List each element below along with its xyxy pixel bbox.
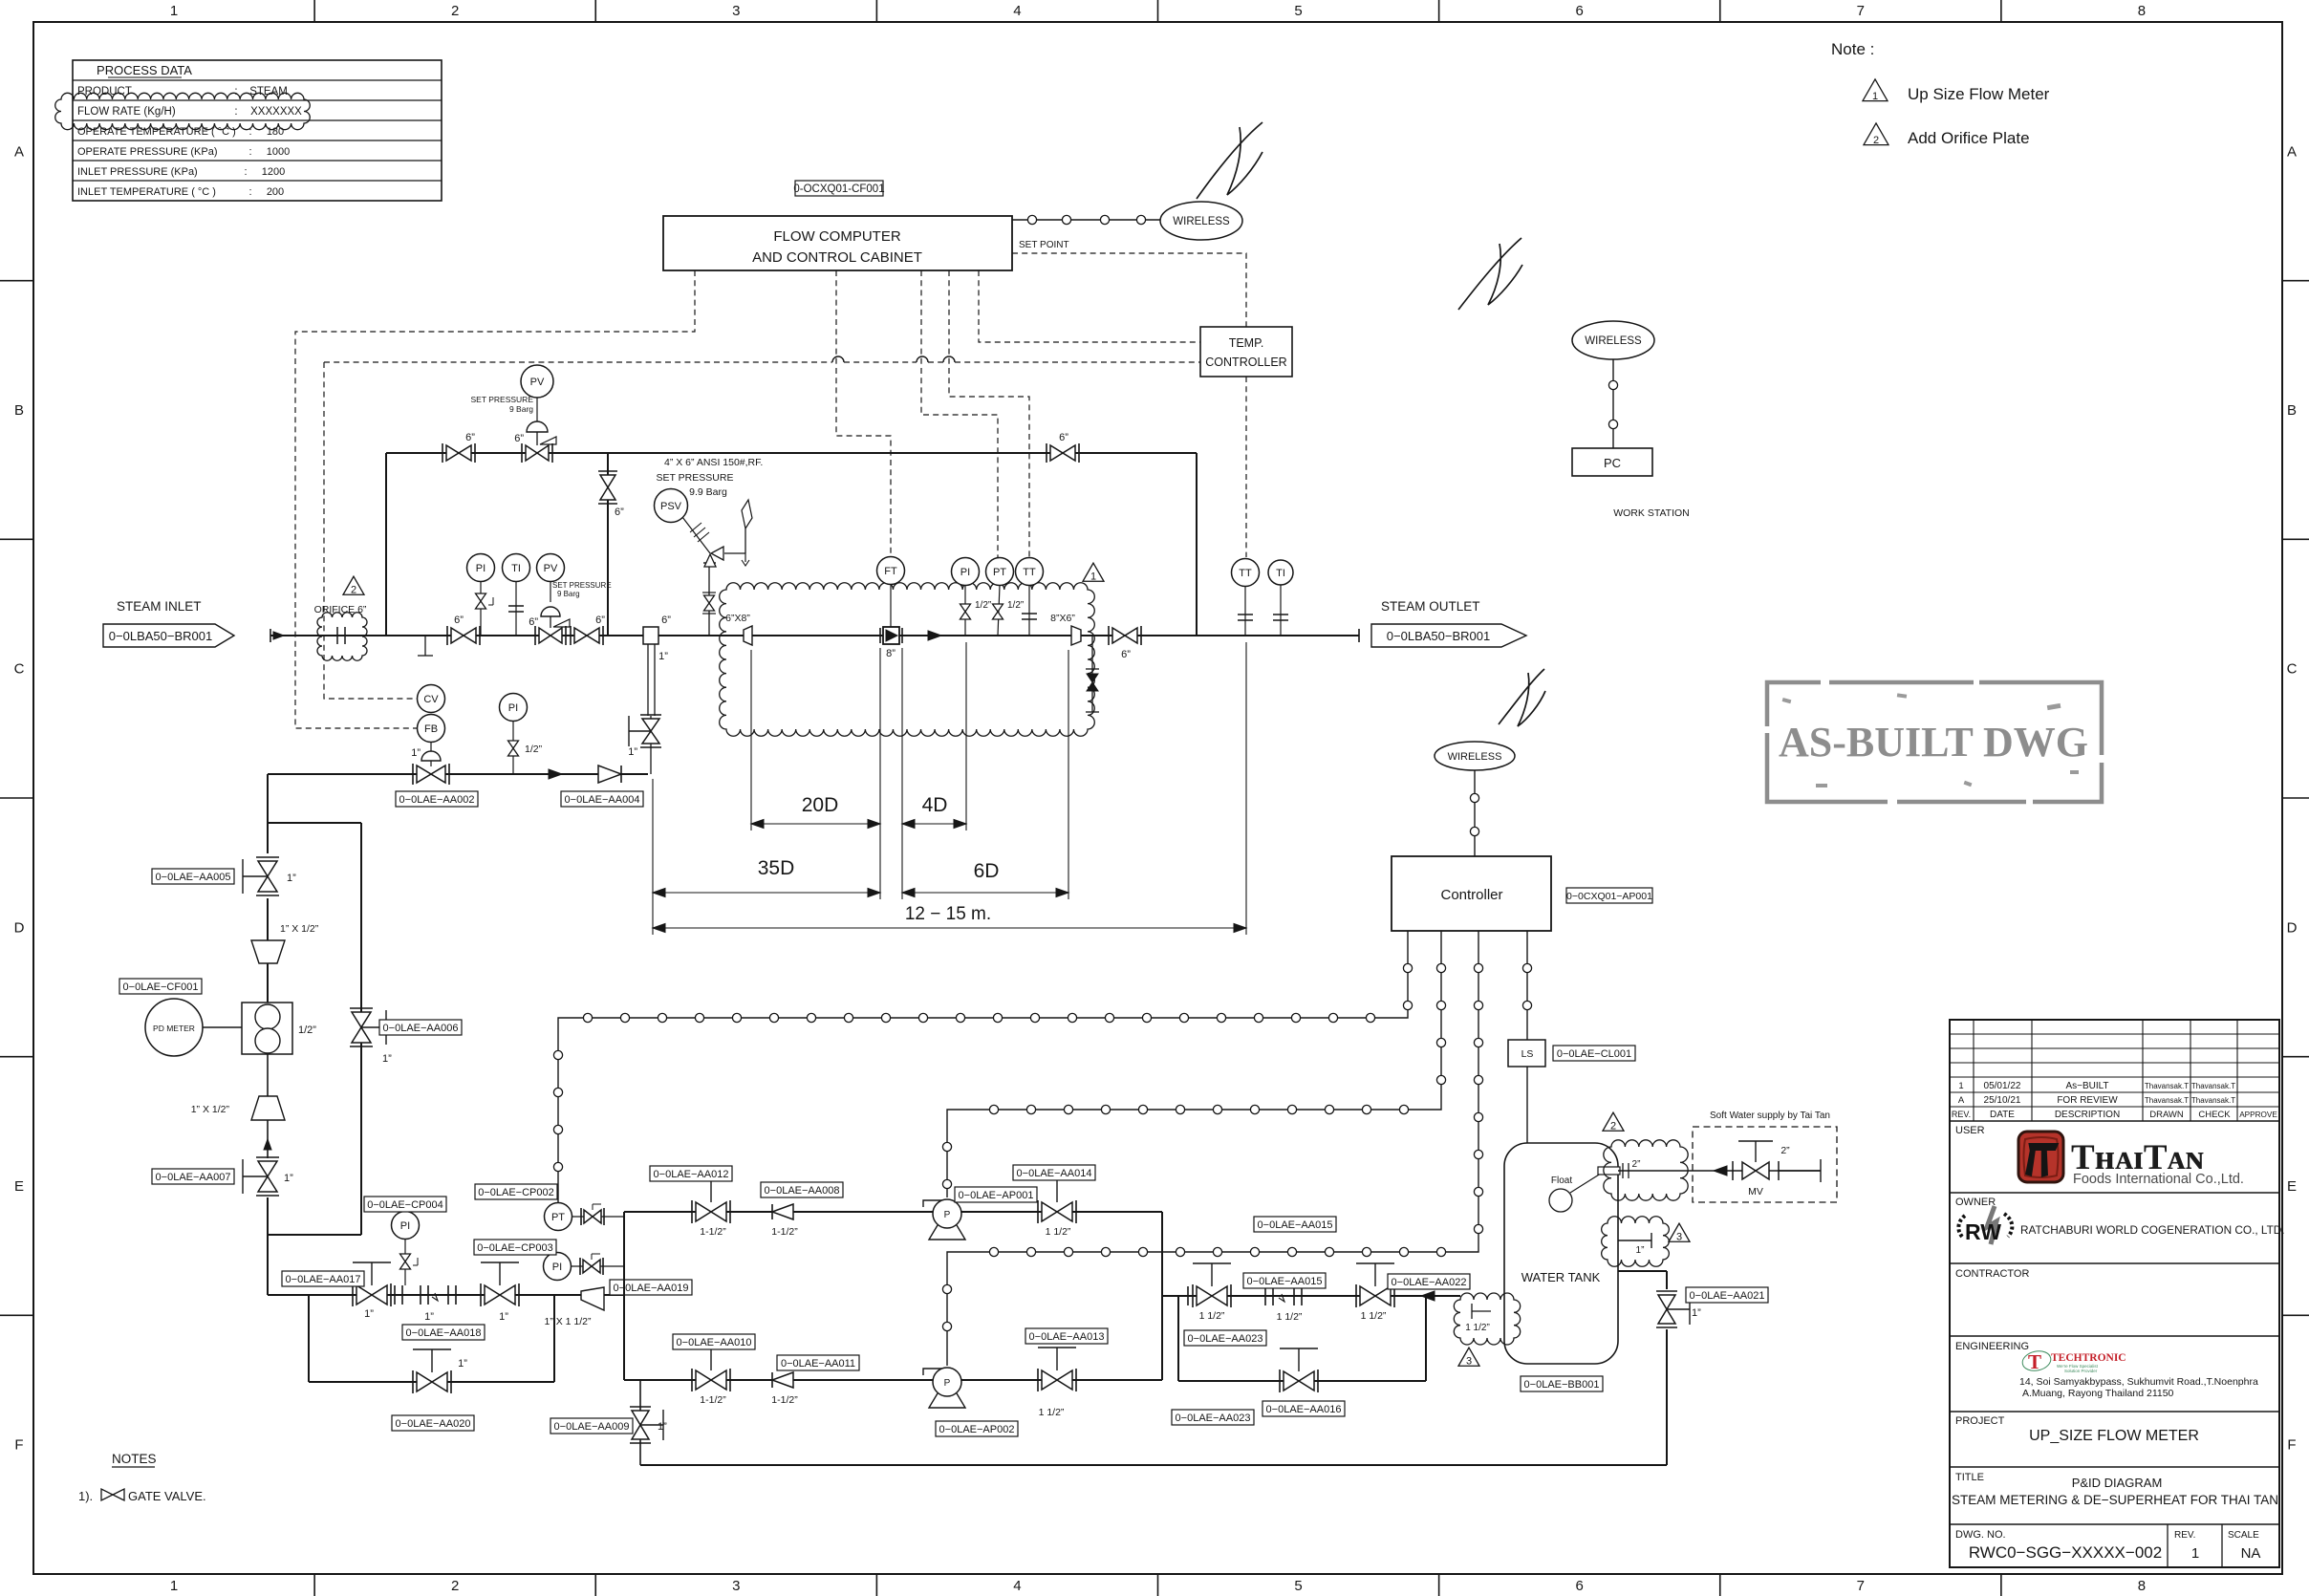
svg-text:A: A [1958,1095,1965,1106]
svg-text:1”: 1” [382,1053,392,1065]
svg-text:SET POINT: SET POINT [1019,240,1069,250]
svg-text:0−0LAE−CP003: 0−0LAE−CP003 [477,1242,553,1254]
svg-text:SET PRESSURE: SET PRESSURE [552,581,612,590]
svg-text:F: F [14,1437,23,1454]
tank outlet to AA021 [1618,1270,1667,1272]
svg-text:0−0LAE−AA008: 0−0LAE−AA008 [765,1185,840,1197]
spool 0-OLAE-AA015 [1264,1286,1266,1305]
svg-text:6”: 6” [514,433,524,444]
svg-text:4: 4 [1013,1578,1021,1594]
svg-text:0−0LAE−BB001: 0−0LAE−BB001 [1524,1379,1600,1391]
note triangle 1 [1863,79,1888,101]
svg-text:2”: 2” [1780,1145,1790,1156]
svg-text:0−0LAE−AA020: 0−0LAE−AA020 [396,1418,471,1430]
svg-text:3: 3 [732,1578,740,1594]
svg-text:PI: PI [508,702,518,714]
svg-text:A: A [14,143,24,160]
svg-text:180: 180 [267,126,284,138]
svg-text:Thavansak.T: Thavansak.T [2191,1096,2235,1105]
svg-text:6”: 6” [529,616,538,628]
svg-text::: : [234,106,237,118]
svg-text:D: D [14,919,25,936]
valve MV [1714,1166,1727,1175]
flow meter 8in [879,628,881,643]
svg-text:FT: FT [884,566,897,577]
wire flow computer to wireless with beads [1012,219,1160,221]
left drop pipe [267,774,269,853]
note triangle 3b [1669,1223,1690,1241]
gate valve 0-OLAE-AA023 [1192,1284,1194,1307]
svg-text:WIRELESS: WIRELESS [1173,216,1230,227]
svg-text:0−0LAE−AA017: 0−0LAE−AA017 [286,1274,361,1285]
controller box [1392,856,1551,931]
svg-text:DWG. NO.: DWG. NO. [1955,1529,2006,1541]
svg-text:PV: PV [530,377,545,388]
svg-text:RW: RW [1965,1219,2001,1244]
svg-text:OPERATE PRESSURE (KPa): OPERATE PRESSURE (KPa) [77,146,218,158]
svg-text:1200: 1200 [262,166,285,178]
gate valve 0-OLAE-AA022 [1355,1284,1357,1307]
svg-text:0−0LAE−AA023: 0−0LAE−AA023 [1176,1413,1251,1424]
svg-text:E: E [2287,1178,2297,1195]
tank inlet cloud [1454,1293,1520,1345]
svg-text:6”: 6” [1121,649,1131,660]
svg-text:8”: 8” [886,648,896,659]
svg-text:1”: 1” [458,1358,467,1370]
line below strainer [267,1054,269,1096]
svg-text:1”: 1” [411,747,421,759]
pc box [1572,448,1652,476]
svg-text:14, Soi Samyakbypass, Sukhu: 14, Soi Samyakbypass, Sukhumvit Road.,T.… [2019,1376,2258,1388]
svg-text:STEAM METERING & DE−SUPERHE: STEAM METERING & DE−SUPERHEAT FOR THAI T… [1952,1493,2278,1507]
svg-text:0−0LAE−AP001: 0−0LAE−AP001 [959,1190,1034,1201]
svg-text:1: 1 [170,3,178,19]
wire AA006 branch joins [268,1234,361,1236]
squiggle mark 2 [1458,238,1522,310]
note triangle 1 on main [1083,563,1104,581]
svg-text:P: P [944,1378,951,1389]
svg-text:WATER TANK: WATER TANK [1521,1270,1601,1284]
svg-text:0−0LAE−AA007: 0−0LAE−AA007 [156,1172,231,1183]
svg-text:DESCRIPTION: DESCRIPTION [2055,1110,2120,1120]
instrument PV on main [537,554,565,582]
svg-text:1: 1 [1090,572,1096,583]
dimension 20D [751,823,880,825]
svg-text:PI: PI [960,567,970,578]
instrument FB [418,715,445,743]
tag 0-OCXQ01-CF001 [793,181,884,196]
svg-text:7: 7 [1857,3,1865,19]
svg-text:WIRELESS: WIRELESS [1585,335,1642,347]
svg-text:1”: 1” [424,1311,434,1323]
gate valve 0-OLAE-AA021 [1656,1290,1677,1292]
svg-text:0−0LAE−AA013: 0−0LAE−AA013 [1029,1331,1105,1343]
svg-text:XXXXXXX: XXXXXXX [250,106,302,118]
svg-text:C: C [14,661,25,678]
svg-text:6: 6 [1576,1578,1584,1594]
svg-text:1 1/2”: 1 1/2” [1046,1226,1071,1238]
svg-text:CONTRACTOR: CONTRACTOR [1955,1268,2029,1280]
svg-text:0−0LAE−CP002: 0−0LAE−CP002 [478,1187,554,1198]
manifold left header [623,1212,625,1380]
contractor section [1950,1335,2279,1337]
svg-text:6”: 6” [615,507,624,518]
gate valve 0-OLAE-AA006 [350,1007,373,1009]
dashed wire flow computer to PT [921,270,998,557]
svg-text:0-OCXQ01-CF001: 0-OCXQ01-CF001 [793,183,884,195]
reducer 8x6 on main [1071,626,1081,645]
svg-text:0−0LAE−AA014: 0−0LAE−AA014 [1017,1168,1092,1179]
svg-text:FOR REVIEW: FOR REVIEW [2057,1095,2118,1106]
svg-text:SET PRESSURE: SET PRESSURE [470,395,533,404]
svg-text:0−0LAE−AA005: 0−0LAE−AA005 [156,872,231,883]
gate valve 0-OLAE-AA017 [352,1283,354,1306]
svg-text:1).: 1). [78,1489,93,1503]
svg-text:0−0LAE−AA016: 0−0LAE−AA016 [1266,1404,1342,1415]
gate valve 0-OLAE-AA007 [256,1156,279,1158]
svg-text:A: A [2287,143,2297,160]
as-built stamp [1767,682,2102,802]
bypass with AA016 [1177,1296,1179,1381]
svg-text:Note :: Note : [1831,40,1874,58]
engineering section [1950,1411,2279,1413]
svg-text:1: 1 [2191,1545,2199,1562]
svg-text:1” X 1 1/2”: 1” X 1 1/2” [544,1316,592,1327]
user section [1950,1192,2279,1194]
svg-text:PI: PI [552,1262,562,1273]
title section [1950,1523,2279,1525]
reducer 1x half [251,940,285,963]
bottom return pipe [640,1464,1667,1466]
svg-text:8: 8 [2138,1578,2146,1594]
svg-text:25/10/21: 25/10/21 [1984,1095,2021,1106]
steam outlet [1358,629,1360,642]
pd meter [145,999,203,1056]
dashed wire flow computer to temp controller [979,270,1200,342]
svg-text:8”X6”: 8”X6” [1050,613,1075,624]
signal line 2 controller to pump AP001 [947,931,1441,1197]
instrument PV on bypass [521,365,553,398]
svg-text:MV: MV [1748,1186,1763,1197]
svg-text:PI: PI [476,563,486,574]
svg-text:Solution Provider: Solution Provider [2064,1369,2098,1373]
svg-text:0−0LAE−CL001: 0−0LAE−CL001 [1557,1048,1631,1060]
svg-text:0−0LAE−AA012: 0−0LAE−AA012 [654,1169,729,1180]
svg-text:NA: NA [2241,1545,2261,1562]
svg-text::: : [234,86,237,97]
svg-text:0−0LAE−CF001: 0−0LAE−CF001 [123,981,199,993]
svg-text:6”: 6” [661,615,671,626]
relief valve spring [682,517,710,553]
svg-text:DRAWN: DRAWN [2149,1110,2184,1120]
svg-text:200: 200 [267,186,284,198]
svg-text:12 − 15 m.: 12 − 15 m. [905,904,991,924]
pump 0-OLAE-AP002 [923,1369,944,1375]
bypass pipe 6in [385,453,387,636]
instrument PT CP002 [545,1203,572,1231]
svg-text:0−0LAE−AA010: 0−0LAE−AA010 [677,1337,752,1348]
svg-text:TI: TI [1276,568,1285,579]
svg-text:1” X 1/2”: 1” X 1/2” [191,1104,230,1115]
svg-text:6”: 6” [595,615,605,626]
svg-text:PT: PT [993,567,1006,578]
revision cloud around flow rate row [55,93,311,129]
svg-text:P&ID DIAGRAM: P&ID DIAGRAM [2072,1476,2163,1490]
svg-text:1-1/2”: 1-1/2” [771,1226,798,1238]
svg-text:6: 6 [1576,3,1584,19]
svg-text:1”: 1” [364,1308,374,1320]
svg-text:DATE: DATE [1990,1110,2015,1120]
svg-text:STEAM OUTLET: STEAM OUTLET [1381,599,1480,614]
instrument TI on main [503,554,530,582]
svg-text:INLET PRESSURE (KPa): INLET PRESSURE (KPa) [77,166,198,178]
svg-text:1”: 1” [658,1421,667,1433]
wireless bubble 3 [1435,742,1515,770]
svg-text:05/01/22: 05/01/22 [1984,1081,2021,1091]
svg-text:OWNER: OWNER [1955,1197,1996,1208]
svg-text:1 1/2”: 1 1/2” [1199,1310,1225,1322]
svg-text:E: E [14,1178,24,1195]
svg-text:5: 5 [1294,1578,1302,1594]
svg-text:6”X8”: 6”X8” [725,613,750,624]
svg-text:CONTROLLER: CONTROLLER [1205,356,1286,369]
svg-text:C: C [2287,661,2298,678]
vent flag [744,528,746,553]
capped 1in connection [1618,1240,1651,1241]
svg-text:35D: 35D [758,857,795,879]
svg-text:CHECK: CHECK [2198,1110,2231,1120]
gate valve 0-OLAE-AA002 [412,764,414,785]
svg-text:5: 5 [1294,3,1302,19]
svg-text:As−BUILT: As−BUILT [2065,1081,2108,1091]
svg-text::: : [248,186,251,198]
svg-text:PSV: PSV [660,501,682,512]
svg-text:1000: 1000 [267,146,290,158]
gate valve 0-OLAE-AA005 [256,856,279,858]
svg-text:8: 8 [2138,3,2146,19]
reducer 6x8 on main [744,626,752,645]
svg-text:REV.: REV. [2174,1530,2195,1541]
svg-text:1: 1 [1958,1081,1963,1091]
svg-text:6”: 6” [454,615,464,626]
flow arrow toward pumps [1421,1291,1435,1301]
rw logo [1958,1206,2012,1244]
flanged spool box on main [643,627,658,644]
svg-text:7: 7 [1857,1578,1865,1594]
flow arrow up [264,1139,271,1150]
svg-text:SET PRESSURE: SET PRESSURE [657,472,734,484]
wire wireless to controller [1474,770,1476,856]
instrument TI 2 [1268,560,1293,585]
wire wireless to PC [1612,359,1614,448]
svg-text:4: 4 [1013,3,1021,19]
pump suction bottom branch [624,1379,1162,1381]
svg-text:FLOW RATE (Kg/H): FLOW RATE (Kg/H) [77,106,176,118]
instrument FT [877,557,905,585]
instrument TT 1 [1016,558,1044,586]
gate valve 0-OLAE-AA014 [1037,1200,1039,1223]
svg-text:4D: 4D [922,794,948,816]
instrument PT 2 [986,558,1014,586]
check valve 0-OLAE-AA004 [598,766,621,783]
svg-text:TT: TT [1023,567,1036,578]
vertical gate valve 1in on drop [640,714,661,716]
svg-text:CV: CV [423,694,439,705]
svg-text:1/2”: 1/2” [298,1024,316,1036]
svg-text:GATE VALVE.: GATE VALVE. [128,1489,206,1503]
svg-text:NOTES: NOTES [112,1452,157,1466]
control valve PV on main line [541,607,560,616]
svg-text:PV: PV [544,563,558,574]
svg-text:20D: 20D [802,794,839,816]
soft water dashed box [1693,1127,1837,1202]
svg-text:ORIFICE 6”: ORIFICE 6” [314,604,367,615]
dimension 4D [902,823,966,825]
svg-text:PROJECT: PROJECT [1955,1415,2005,1427]
svg-text:6D: 6D [974,860,1000,882]
pump suction top branch [624,1211,1162,1213]
dashed wire temp controller to TT [1245,377,1247,557]
svg-text:3: 3 [1466,1356,1472,1368]
svg-text:ENGINEERING: ENGINEERING [1955,1341,2029,1352]
instrument PI CP004a [500,694,528,722]
riser from bypass to main [607,453,609,636]
svg-text:3: 3 [732,3,740,19]
check valve 0-OLAE-AA011 [772,1372,793,1388]
wireless bubble 2 [1572,321,1654,359]
svg-text:6”: 6” [1059,432,1068,443]
svg-text:2: 2 [451,3,459,19]
signal line 1 controller to PT CP002 [558,931,1408,1202]
svg-text:Add Orifice Plate: Add Orifice Plate [1908,129,2030,147]
svg-text:1 1/2”: 1 1/2” [1039,1407,1065,1418]
svg-text:0−0CXQ01−AP001: 0−0CXQ01−AP001 [1566,891,1652,902]
dimension 35D [653,892,880,894]
drain drop with AA009 [639,1380,641,1465]
svg-text:TI: TI [511,563,521,574]
drain valve below main right [1091,636,1093,712]
dwg no section [2167,1524,2169,1567]
svg-text:1/2”: 1/2” [1007,600,1024,611]
svg-text:WORK STATION: WORK STATION [1613,507,1690,519]
svg-text:RWC0−SGG−XXXXX−002: RWC0−SGG−XXXXX−002 [1969,1543,2162,1562]
svg-text:PI: PI [400,1220,410,1232]
svg-text:2: 2 [351,585,356,596]
svg-text:1” X 1/2”: 1” X 1/2” [280,923,319,935]
svg-text:AS-BUILT DWG: AS-BUILT DWG [1779,719,2088,766]
svg-text:Thavansak.T: Thavansak.T [2145,1096,2189,1105]
svg-text:1/2”: 1/2” [525,744,543,755]
reducer 1 x 1-1/2 [581,1287,604,1310]
svg-text:1”: 1” [628,746,637,758]
svg-text:WIRELESS: WIRELESS [1448,751,1502,763]
water tank 0-OLAE-BB001 [1504,1143,1618,1364]
svg-text:Thavansak.T: Thavansak.T [2145,1082,2189,1090]
feed line to manifold [268,1294,624,1296]
svg-text:FLOW COMPUTER: FLOW COMPUTER [773,228,900,245]
svg-text:TEMP.: TEMP. [1229,336,1264,350]
signal line 3 controller to pump AP002 [947,931,1478,1366]
svg-text:Float: Float [1551,1175,1572,1186]
svg-text:1”: 1” [658,651,668,662]
svg-text:2: 2 [1873,135,1879,146]
gate valve 0-OLAE-AA010 [691,1369,693,1391]
svg-text:0−0LAE−AA022: 0−0LAE−AA022 [1392,1277,1467,1288]
process data table [73,60,442,201]
svg-text:P: P [944,1210,951,1220]
gate valve 6in on main line 2 [570,626,572,645]
svg-text::: : [244,166,247,178]
svg-text:PC: PC [1604,456,1621,470]
tag 0-OLAE-CF001 [119,979,202,994]
temp controller box [1200,327,1292,377]
svg-text:Thavansak.T: Thavansak.T [2191,1082,2235,1090]
svg-text:INLET TEMPERATURE ( °C ): INLET TEMPERATURE ( °C ) [77,186,216,198]
gate valve AA018b [480,1283,482,1306]
tag 0-OCXQ01-AP001 [1566,888,1652,903]
instrument PI CP004 [392,1212,420,1240]
svg-text:PT: PT [551,1212,565,1223]
svg-text:0−0LBA50−BR001: 0−0LBA50−BR001 [1387,629,1490,643]
instrument PI CP003 [544,1253,572,1281]
psv branch riser [708,563,710,636]
svg-text:1-1/2”: 1-1/2” [771,1394,798,1406]
svg-text:1-1/2”: 1-1/2” [700,1394,726,1406]
note triangle 2 [1864,123,1888,145]
svg-text:1”: 1” [1636,1245,1645,1256]
svg-text:1-1/2”: 1-1/2” [700,1226,726,1238]
svg-text:1”: 1” [287,873,296,884]
svg-text:TT: TT [1239,568,1252,579]
note triangle 2 at orifice [343,576,364,594]
svg-text:PD METER: PD METER [153,1024,195,1033]
project section [1950,1466,2279,1468]
svg-text:FB: FB [424,723,438,735]
title block [1950,1020,2279,1567]
svg-text:B: B [14,402,24,419]
gate valve 6in on bypass [442,443,443,463]
svg-text:REV.: REV. [1952,1110,1971,1119]
thaitan logo [2018,1132,2063,1182]
check valve 0-OLAE-AA008 [772,1204,793,1219]
flow arrow on main [928,631,941,640]
svg-text:0−0LAE−AA015: 0−0LAE−AA015 [1258,1219,1333,1231]
relief angle valve [704,554,716,567]
note triangle 2 at tank [1603,1112,1624,1131]
expander half x1 [251,1096,285,1120]
steam inlet line tag 0-0LBA50-BR001 [103,624,234,647]
svg-text:0−0LAE−CP004: 0−0LAE−CP004 [367,1199,443,1211]
gate valve 6in before outlet [1108,626,1110,645]
svg-text:0−0LAE−AA002: 0−0LAE−AA002 [399,794,475,806]
squiggle mark 3 [1499,669,1545,726]
svg-text:0−0LAE−AA021: 0−0LAE−AA021 [1690,1290,1765,1302]
svg-text:SCALE: SCALE [2228,1530,2259,1541]
svg-text:0−0LBA50−BR001: 0−0LBA50−BR001 [109,629,212,643]
instrument TT 2 [1232,559,1260,587]
svg-text:PROCESS DATA: PROCESS DATA [97,63,192,77]
svg-text:STEAM INLET: STEAM INLET [117,599,202,614]
svg-text:1 1/2”: 1 1/2” [1277,1311,1303,1323]
strainer box with float pair [242,1003,292,1054]
svg-text:0−0LAE−AA009: 0−0LAE−AA009 [554,1421,630,1433]
dimension 6D [902,892,1068,894]
svg-text:0−0LAE−AA004: 0−0LAE−AA004 [565,794,640,806]
flow computer and control cabinet box [663,216,1012,270]
manifold right header [1161,1212,1163,1380]
svg-text:STEAM: STEAM [249,86,288,97]
svg-text:2”: 2” [1632,1159,1641,1170]
